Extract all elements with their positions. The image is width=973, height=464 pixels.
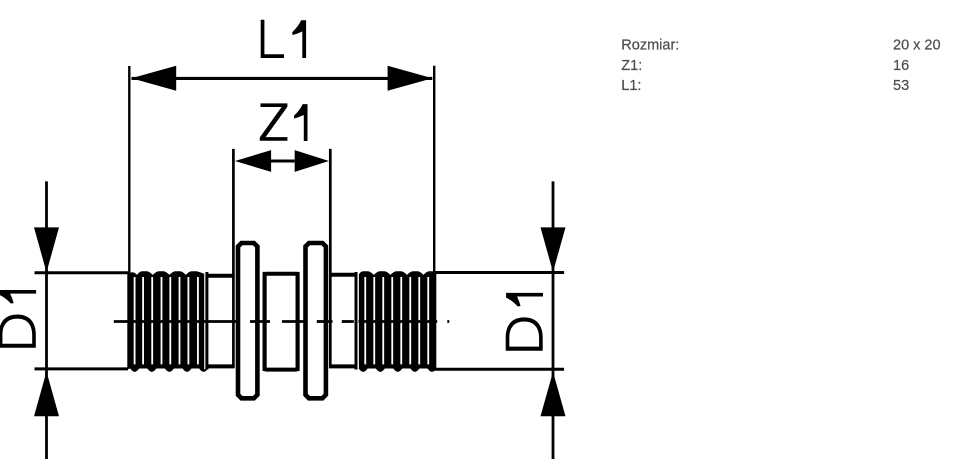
- svg-text:53: 53: [893, 78, 909, 94]
- svg-text:Rozmiar:: Rozmiar:: [621, 38, 679, 54]
- svg-text:Z1:: Z1:: [621, 58, 642, 74]
- svg-text:20 x 20: 20 x 20: [893, 38, 941, 54]
- svg-text:16: 16: [893, 58, 909, 74]
- svg-text:L1:: L1:: [621, 78, 641, 94]
